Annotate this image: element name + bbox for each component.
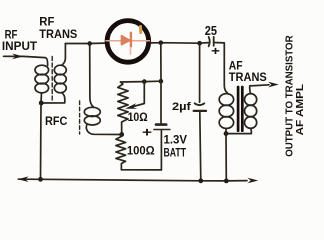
wire bias net horizontal <box>121 80 162 83</box>
node junction dot G (T2 common) <box>224 131 229 136</box>
svg-text:INPUT: INPUT <box>2 41 37 53</box>
wire RF input arrowhead <box>12 54 23 60</box>
battery B1 long thin plate (bottom) <box>154 129 170 131</box>
node junction dot T1 bottoms <box>39 101 44 106</box>
wire primary bottom to ground rail <box>40 103 43 179</box>
wire T2 secondary top lead + output arrow <box>250 85 269 94</box>
node junction dot F (R1/R2/RFC) <box>119 132 124 137</box>
svg-text:BATT: BATT <box>164 146 187 160</box>
wire R1 wiper arrowhead <box>125 103 137 109</box>
transformer T1 RF TRANS secondary coil <box>54 65 66 75</box>
svg-text:RFC: RFC <box>45 114 67 128</box>
transformer T1 RF TRANS primary coil <box>35 65 49 75</box>
svg-text:AF AMPL: AF AMPL <box>295 84 306 135</box>
capacitor C1 25pf right plate <box>213 37 215 46</box>
wire rail left arrowhead <box>18 176 29 182</box>
wire rail right arrowhead <box>247 178 258 184</box>
wire secondary top lead <box>62 44 66 66</box>
wire battery bottom lead <box>160 130 162 170</box>
node junction dot I (rail/C2) <box>198 178 203 183</box>
svg-text:RF: RF <box>5 29 18 41</box>
wire secondary bottom lead <box>41 93 65 103</box>
transformer T2 core bar 2 <box>241 87 244 131</box>
wire R2 bottom to battery bottom <box>121 169 161 171</box>
svg-text:OUTPUT TO TRANSISTOR: OUTPUT TO TRANSISTOR <box>284 35 295 157</box>
wire R1 wiper arm <box>130 82 145 108</box>
node junction dot A <box>87 41 92 46</box>
node junction dot C <box>197 41 202 46</box>
capacitor C1 25pf left (curved) plate <box>209 37 210 46</box>
node junction dot B <box>159 40 164 45</box>
wire 2uf capacitor top lead <box>199 43 201 102</box>
svg-text:2µf: 2µf <box>172 101 191 113</box>
svg-text:1.3V: 1.3V <box>164 133 188 147</box>
transformer T2 core bar 1 <box>237 87 240 131</box>
wire T2 secondary bottom lead <box>226 128 251 133</box>
svg-text:100Ω: 100Ω <box>127 143 155 157</box>
svg-text:TRANS: TRANS <box>229 70 267 84</box>
wire RF input lead <box>4 56 48 65</box>
capacitor C2 2uf top (curved) plate <box>195 103 205 105</box>
node junction dot J (rail/T2) <box>224 179 229 184</box>
svg-text:TRANS: TRANS <box>39 27 77 41</box>
battery B1 short thick plate (top) <box>156 123 166 126</box>
wire ground rail <box>18 179 247 181</box>
node junction dot H (rail/T1) <box>38 177 43 182</box>
wire cap C1 to AF transformer drop <box>214 43 228 94</box>
inductor RFC core (dashed) <box>79 101 81 134</box>
svg-text:+: + <box>211 46 220 58</box>
tunnel diode D1 symbol (red) <box>106 33 150 54</box>
print artifact orange mark on ring <box>139 27 142 33</box>
capacitor C2 2uf bottom plate <box>194 110 206 112</box>
wire top horizontal net (left of diode) <box>65 42 105 44</box>
wire T2 common to rail <box>225 134 227 181</box>
wire RFC bottom lead <box>86 124 121 134</box>
tunnel diode D1 envelope circle <box>107 21 149 63</box>
transformer T2 AF TRANS secondary coil <box>245 94 257 106</box>
wire primary bottom lead <box>40 93 43 103</box>
transformer T2 AF TRANS primary coil <box>219 94 233 106</box>
node junction dot E (main vertical) <box>159 79 164 84</box>
svg-text:25: 25 <box>205 23 217 38</box>
resistor R1 10 ohm zigzag <box>118 82 128 135</box>
wire 2uf capacitor bottom lead <box>200 112 201 181</box>
node junction dot D (wiper tee) <box>142 79 147 84</box>
wire top horizontal net (right of diode) <box>151 42 209 45</box>
wire T2 primary bottom lead <box>225 128 227 133</box>
svg-text:10Ω: 10Ω <box>128 110 148 124</box>
wire main vertical to battery <box>160 43 162 124</box>
svg-text:+: + <box>142 125 153 140</box>
resistor R2 100 ohm zigzag <box>116 135 126 170</box>
transformer T1 core (dashed) <box>51 57 53 101</box>
inductor RFC choke coil <box>90 44 94 107</box>
